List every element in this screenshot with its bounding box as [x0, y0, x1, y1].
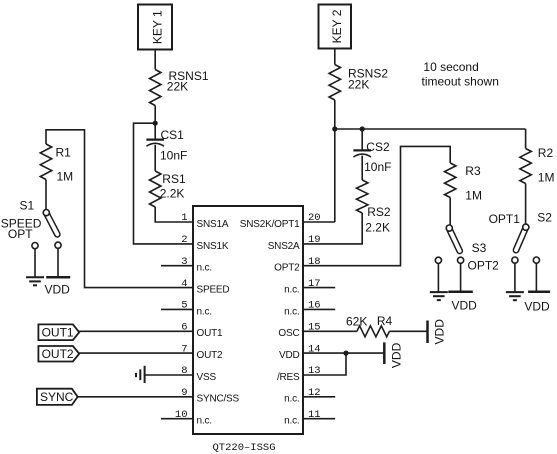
- svg-text:RS1: RS1: [162, 172, 186, 186]
- resistor R3 1M: [445, 163, 482, 203]
- pin 9 label SYNC/SS: [181, 387, 239, 405]
- pin 7 label OUT2: [181, 343, 223, 361]
- node CS2 junction: [360, 126, 365, 131]
- svg-text:S1: S1: [20, 199, 35, 213]
- pin 19 label SNS2A: [268, 234, 321, 252]
- pin 2 label SNS1K: [181, 234, 229, 252]
- wire pin 18 OPT2 to R3: [303, 146, 450, 265]
- wire RSNS2 down to pin 20: [334, 100, 336, 222]
- svg-text:OPT1: OPT1: [489, 212, 521, 226]
- svg-text:OUT2: OUT2: [42, 347, 74, 361]
- pin 3 label n.c.: [181, 256, 212, 274]
- resistor RSNS2 22K: [329, 65, 388, 101]
- wire S2 terminals down: [514, 263, 516, 292]
- resistor RS2 2.2K: [357, 180, 391, 234]
- svg-text:SNS1K: SNS1K: [197, 241, 229, 252]
- pin 1 label SNS1A: [181, 212, 229, 230]
- node junction CS1/SNS1K: [153, 121, 158, 126]
- note 10 second timeout: [422, 60, 499, 89]
- pin 12 label n.c.: [284, 387, 320, 405]
- svg-text:OUT1: OUT1: [42, 326, 74, 340]
- svg-text:/RES: /RES: [277, 372, 300, 383]
- IC U1 QT220-ISSG body: [193, 206, 303, 454]
- pin 5 label n.c.: [181, 300, 212, 318]
- wire R4 to VDD: [389, 330, 426, 332]
- wire pin 14 VDD: [303, 352, 383, 354]
- node pin14/13 junction: [343, 351, 348, 356]
- pin 20 label SNS2K/OPT1: [240, 212, 321, 230]
- svg-text:R2: R2: [538, 146, 554, 160]
- svg-text:VDD: VDD: [452, 298, 478, 312]
- svg-text:22K: 22K: [348, 78, 369, 92]
- wire pin 20: [303, 221, 335, 223]
- VDD rail S1: [45, 277, 71, 296]
- wire RS2 to pin 19: [303, 213, 362, 244]
- svg-text:10nF: 10nF: [160, 149, 187, 163]
- switch S3 OPT2: [435, 225, 499, 273]
- capacitor CS2 10nF: [353, 140, 391, 174]
- resistor RSNS1 22K: [150, 69, 209, 106]
- KEY 2 electrode box: [319, 5, 352, 49]
- wire OUT1 to pin 6: [79, 330, 193, 332]
- svg-text:KEY 2: KEY 2: [330, 9, 344, 43]
- pin 15 label OSC: [278, 321, 320, 339]
- wire rail to CS2: [361, 129, 363, 150]
- pin 13 label /RES: [277, 365, 321, 383]
- svg-text:SNS2A: SNS2A: [268, 241, 300, 252]
- svg-text:RS2: RS2: [367, 205, 391, 219]
- svg-text:R4: R4: [377, 314, 393, 328]
- VDD symbol pin 15: [428, 319, 447, 345]
- svg-text:VSS: VSS: [197, 372, 217, 383]
- KEY 1 electrode box: [138, 5, 172, 50]
- port flag OUT1: [38, 324, 79, 340]
- port flag SYNC: [37, 389, 78, 405]
- svg-text:CS1: CS1: [161, 128, 185, 142]
- ground S2: [506, 292, 524, 300]
- pin 8 label VSS: [181, 365, 216, 383]
- VDD rail S3: [448, 292, 477, 313]
- svg-text:SNS1A: SNS1A: [197, 219, 229, 230]
- wire pin 16 stub: [303, 308, 335, 310]
- svg-text:R3: R3: [465, 164, 481, 178]
- svg-text:timeout shown: timeout shown: [422, 75, 499, 89]
- resistor RS1 2.2K: [150, 171, 186, 207]
- pin 6 label OUT1: [181, 321, 223, 339]
- pin 16 label n.c.: [284, 300, 320, 318]
- wire pin 11 stub: [303, 418, 335, 420]
- switch S1 SPEED OPT: [1, 199, 61, 249]
- svg-text:KEY 1: KEY 1: [150, 10, 164, 44]
- svg-text:OSC: OSC: [278, 328, 299, 339]
- svg-text:SYNC/SS: SYNC/SS: [197, 394, 240, 405]
- svg-text:OUT1: OUT1: [197, 328, 224, 339]
- svg-text:10nF: 10nF: [364, 160, 391, 174]
- svg-text:S3: S3: [472, 241, 487, 255]
- pin 18 label OPT2: [274, 256, 320, 274]
- wire pin 15 OSC to R4: [303, 330, 357, 332]
- svg-text:SPEED: SPEED: [197, 284, 230, 295]
- wire RS1 to pin 1: [155, 207, 193, 222]
- svg-text:22K: 22K: [167, 80, 188, 94]
- wire pin 3 stub: [161, 265, 193, 267]
- svg-text:OPT2: OPT2: [274, 263, 300, 274]
- wire junction to SNS1K corner: [134, 123, 194, 244]
- wire pin 13 /RES to VDD net: [303, 353, 346, 375]
- svg-text:OUT2: OUT2: [197, 350, 224, 361]
- wire KEY1 to RSNS1: [154, 50, 156, 70]
- svg-text:n.c.: n.c.: [284, 394, 299, 405]
- wire top rail: [335, 128, 526, 130]
- ground VSS pin 8: [136, 366, 145, 383]
- svg-text:SNS2K/OPT1: SNS2K/OPT1: [240, 219, 300, 230]
- resistor R2 1M: [520, 146, 555, 185]
- wire KEY2 to RSNS2: [334, 49, 336, 65]
- wire pin 12 stub: [303, 396, 335, 398]
- svg-text:VDD: VDD: [432, 319, 446, 345]
- wire R3 to S3: [449, 198, 451, 226]
- ground S1: [26, 277, 44, 285]
- pin 4 label SPEED: [181, 278, 229, 296]
- svg-text:n.c.: n.c.: [197, 416, 212, 427]
- svg-text:S2: S2: [537, 211, 552, 225]
- svg-text:n.c.: n.c.: [284, 284, 299, 295]
- svg-text:1M: 1M: [57, 170, 74, 184]
- svg-text:VDD: VDD: [524, 299, 550, 313]
- svg-text:1M: 1M: [538, 170, 555, 184]
- pin 14 label VDD: [279, 343, 321, 361]
- svg-text:2.2K: 2.2K: [365, 220, 390, 234]
- svg-text:R1: R1: [56, 146, 72, 160]
- wire VSS to pin 8: [145, 374, 193, 376]
- svg-text:10 second: 10 second: [423, 60, 478, 74]
- wire R1 to S1: [45, 180, 47, 210]
- wire pin 10 stub: [161, 418, 193, 420]
- resistor R1 1M: [40, 144, 73, 184]
- pin 17 label n.c.: [284, 278, 320, 296]
- svg-text:VDD: VDD: [279, 350, 300, 361]
- svg-text:n.c.: n.c.: [284, 416, 299, 427]
- wire rail to R2: [525, 129, 527, 149]
- svg-text:SYNC: SYNC: [40, 390, 74, 404]
- wire RSNS1 to CS1: [154, 106, 156, 140]
- svg-text:62K: 62K: [346, 314, 367, 328]
- node KEY2 rail junction: [332, 126, 337, 131]
- ground S3: [430, 292, 448, 300]
- wire pin 17 stub: [303, 287, 335, 289]
- switch S2 OPT1: [489, 211, 553, 264]
- wire pin 5 stub: [161, 308, 193, 310]
- svg-text:OPT2: OPT2: [468, 259, 500, 273]
- svg-text:1M: 1M: [465, 189, 482, 203]
- svg-text:QT220–ISSG: QT220–ISSG: [212, 442, 275, 454]
- wire SYNC to pin 9: [78, 396, 193, 398]
- pin 10 label n.c.: [175, 409, 212, 427]
- svg-text:2.2K: 2.2K: [160, 187, 185, 201]
- wire CS1 to RS1: [154, 145, 156, 171]
- svg-text:VDD: VDD: [45, 283, 71, 297]
- svg-text:n.c.: n.c.: [197, 306, 212, 317]
- VDD symbol pin 14: [384, 342, 403, 368]
- svg-text:n.c.: n.c.: [197, 263, 212, 274]
- svg-text:n.c.: n.c.: [284, 306, 299, 317]
- wire OUT2 to pin 7: [79, 352, 193, 354]
- capacitor CS1 10nF: [146, 128, 187, 163]
- wire CS2 to RS2: [361, 156, 363, 180]
- svg-text:VDD: VDD: [390, 342, 404, 368]
- wire R1 rail to SPEED pin 4: [46, 130, 193, 288]
- resistor R4 62K: [346, 314, 393, 337]
- pin 11 label n.c.: [284, 409, 320, 427]
- svg-text:OPT: OPT: [8, 227, 33, 241]
- wire R2 to S2: [525, 184, 527, 225]
- port flag OUT2: [38, 346, 79, 362]
- wire S1 terminals down: [34, 249, 36, 277]
- svg-text:CS2: CS2: [366, 140, 390, 154]
- wire S3 terminals down: [437, 263, 439, 291]
- VDD rail S2: [524, 292, 550, 314]
